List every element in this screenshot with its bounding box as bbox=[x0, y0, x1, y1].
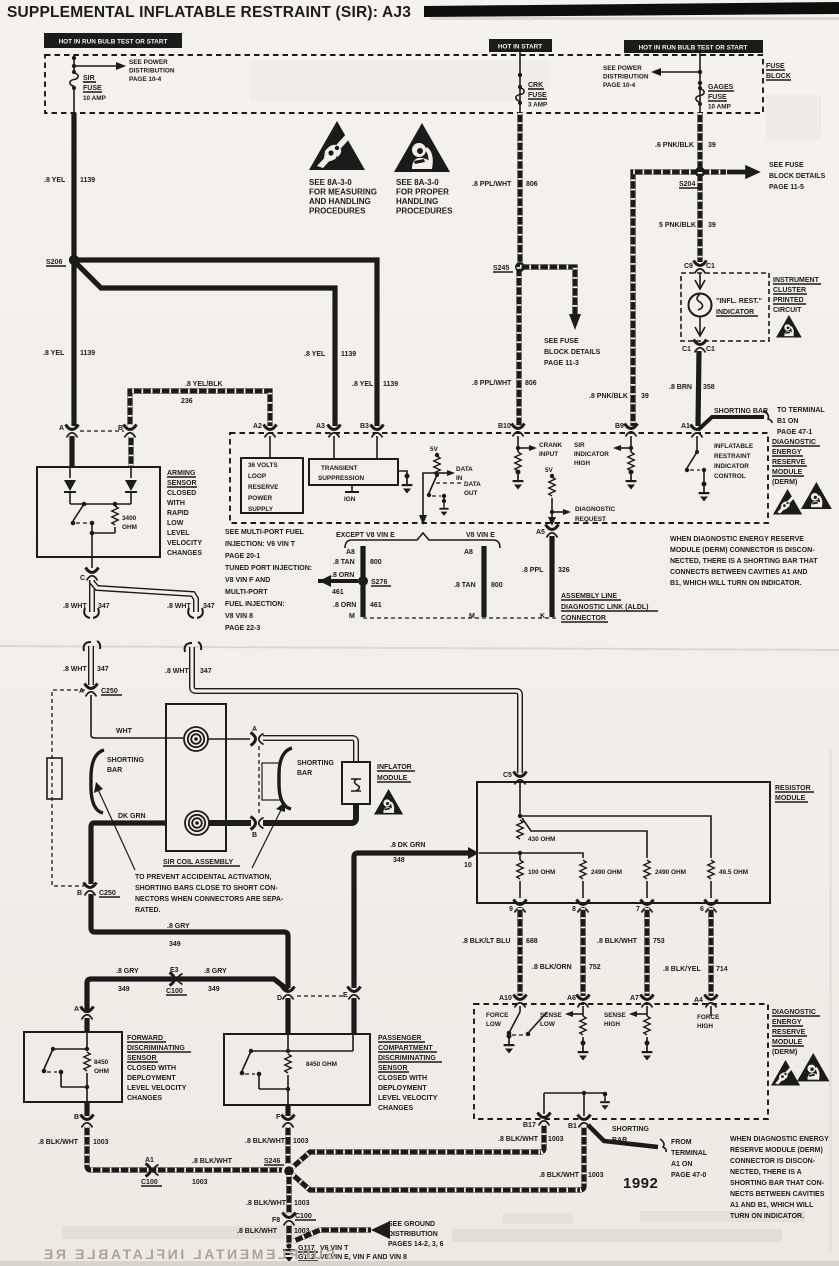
force high bbox=[697, 1006, 720, 1030]
svg-text:1003: 1003 bbox=[293, 1138, 309, 1145]
svg-text:NECTED, THERE IS A: NECTED, THERE IS A bbox=[730, 1169, 802, 1176]
connector B3 bbox=[360, 423, 384, 438]
header box HOT IN RUN BULB TEST OR START (right) bbox=[624, 40, 763, 53]
svg-text:FORCE: FORCE bbox=[486, 1012, 509, 1019]
svg-text:1003: 1003 bbox=[588, 1172, 604, 1179]
svg-text:.8 BLK/WHT: .8 BLK/WHT bbox=[192, 1158, 233, 1165]
terminal 9 bbox=[509, 900, 527, 914]
SIR fuse labels bbox=[83, 75, 107, 102]
wire S206 to A3 bbox=[74, 264, 335, 426]
svg-text:C100: C100 bbox=[166, 988, 183, 995]
label .8 BLK/WHT 1003 (B17 wire) bbox=[498, 1136, 564, 1143]
inflator module box bbox=[342, 762, 370, 804]
wire .8 BLK/LT BLU 688 hatched bbox=[517, 908, 522, 996]
CRK fuse wire bbox=[518, 52, 522, 113]
node S276 bbox=[358, 576, 391, 586]
connector C bbox=[80, 568, 99, 583]
resistor 430 OHM bbox=[517, 820, 556, 843]
svg-text:F: F bbox=[276, 1114, 281, 1121]
svg-text:WHEN DIAGNOSTIC ENERGY: WHEN DIAGNOSTIC ENERGY bbox=[730, 1136, 829, 1143]
connector B C250 bbox=[77, 883, 120, 898]
svg-text:A1: A1 bbox=[681, 423, 690, 430]
svg-text:S276: S276 bbox=[371, 579, 387, 586]
text see 8A-3-0 measuring bbox=[309, 178, 377, 216]
svg-text:347: 347 bbox=[98, 603, 110, 610]
svg-text:NECTED, THERE IS A SHORTING BA: NECTED, THERE IS A SHORTING BAR THAT bbox=[670, 558, 818, 565]
svg-text:.8 YEL: .8 YEL bbox=[44, 177, 66, 184]
svg-text:1139: 1139 bbox=[80, 350, 95, 357]
resistor module box bbox=[477, 782, 770, 903]
IGN terminal bbox=[344, 485, 359, 503]
svg-text:SIR COIL ASSEMBLY: SIR COIL ASSEMBLY bbox=[163, 859, 233, 866]
svg-text:49.5 OHM: 49.5 OHM bbox=[719, 869, 748, 876]
svg-text:TUNED PORT INJECTION:: TUNED PORT INJECTION: bbox=[225, 565, 312, 572]
svg-text:.8 WHT: .8 WHT bbox=[63, 603, 87, 610]
svg-text:DATA: DATA bbox=[464, 481, 481, 488]
wire A2 to 36V supply bbox=[269, 436, 271, 458]
svg-text:S206: S206 bbox=[46, 259, 62, 266]
svg-text:.8 BLK/WHT: .8 BLK/WHT bbox=[597, 938, 638, 945]
svg-text:B: B bbox=[252, 832, 257, 839]
header box HOT IN START bbox=[489, 39, 552, 52]
svg-text:ENERGY: ENERGY bbox=[772, 1019, 802, 1026]
svg-text:.8 YEL: .8 YEL bbox=[352, 381, 374, 388]
svg-text:LEVEL VELOCITY: LEVEL VELOCITY bbox=[127, 1085, 187, 1092]
svg-text:CONNECTOR IS DISCON-: CONNECTOR IS DISCON- bbox=[730, 1158, 816, 1165]
svg-text:.8 WHT: .8 WHT bbox=[165, 668, 189, 675]
DERM label (top right) bbox=[772, 439, 820, 486]
svg-text:SENSOR: SENSOR bbox=[167, 480, 197, 487]
svg-text:C: C bbox=[80, 575, 85, 582]
text see fuse block details page 11-3 bbox=[544, 338, 601, 367]
svg-text:DIAGNOSTIC: DIAGNOSTIC bbox=[772, 1009, 816, 1016]
svg-text:INJECTION: V6 VIN T: INJECTION: V6 VIN T bbox=[225, 541, 296, 548]
svg-text:MODULE: MODULE bbox=[775, 795, 806, 802]
svg-text:SHORTING: SHORTING bbox=[107, 757, 145, 764]
svg-text:HANDLING: HANDLING bbox=[396, 197, 438, 206]
crank input node bbox=[516, 436, 563, 458]
svg-text:B: B bbox=[77, 890, 82, 897]
svg-text:10: 10 bbox=[464, 862, 472, 869]
dashed connector position line (left) bbox=[52, 690, 85, 886]
node S245 bbox=[493, 262, 525, 272]
thick wire DK GRN to resistor module bbox=[354, 853, 471, 988]
svg-text:349: 349 bbox=[208, 986, 220, 993]
svg-text:.8 YEL: .8 YEL bbox=[43, 350, 65, 357]
svg-text:LEVEL: LEVEL bbox=[167, 530, 190, 537]
svg-text:CLOSED WITH: CLOSED WITH bbox=[127, 1065, 176, 1072]
svg-text:WHEN DIAGNOSTIC ENERGY RESERVE: WHEN DIAGNOSTIC ENERGY RESERVE bbox=[670, 536, 804, 543]
ESD triangles DERM top bbox=[773, 482, 832, 514]
svg-text:BAR: BAR bbox=[612, 1137, 627, 1144]
svg-text:ARMING: ARMING bbox=[167, 470, 196, 477]
connector C5 bbox=[503, 772, 527, 785]
5V data circuit bbox=[430, 446, 440, 477]
wire D into sensor bbox=[285, 998, 290, 1034]
label 5 PNK/BLK 39 bbox=[659, 222, 716, 229]
arrow to fuse block details 11-5 bbox=[727, 165, 761, 179]
svg-text:SEE MULTI-PORT FUEL: SEE MULTI-PORT FUEL bbox=[225, 529, 305, 536]
svg-text:K: K bbox=[540, 613, 545, 620]
svg-text:A10: A10 bbox=[499, 995, 512, 1002]
svg-text:F8: F8 bbox=[272, 1217, 280, 1224]
svg-text:HIGH: HIGH bbox=[697, 1023, 713, 1030]
switch arming sensor bbox=[71, 502, 95, 536]
svg-text:NECTS BETWEEN CAVITIES: NECTS BETWEEN CAVITIES bbox=[730, 1191, 825, 1198]
wire .8 BRN 358 bbox=[698, 351, 699, 426]
svg-text:800: 800 bbox=[370, 559, 382, 566]
label .8 WHT 347 (bottom right) bbox=[165, 668, 212, 675]
svg-text:SUPPLEMENTAL INFLATABLE RE: SUPPLEMENTAL INFLATABLE RE bbox=[41, 1246, 335, 1262]
svg-text:A: A bbox=[74, 1006, 79, 1013]
svg-text:S246: S246 bbox=[264, 1158, 280, 1165]
label .8 YEL 1139 (A wire) bbox=[43, 350, 95, 357]
text see 8A-3-0 proper handling bbox=[396, 178, 453, 216]
svg-text:M: M bbox=[469, 613, 475, 620]
ESD triangle (cluster) bbox=[776, 315, 802, 338]
hollow wire A to inflator module bbox=[263, 738, 356, 762]
svg-text:3400: 3400 bbox=[122, 515, 137, 522]
svg-text:DK GRN: DK GRN bbox=[118, 813, 146, 820]
wire joining diodes bbox=[70, 503, 131, 505]
wire coil upper to A bbox=[208, 738, 250, 740]
svg-text:PROCEDURES: PROCEDURES bbox=[396, 207, 453, 216]
svg-text:WITH: WITH bbox=[167, 500, 185, 507]
labels .8 TAN 800 (left) bbox=[333, 559, 382, 566]
fuse block label bbox=[766, 63, 791, 80]
svg-text:MODULE (DERM) CONNECTOR IS DIS: MODULE (DERM) CONNECTOR IS DISCON- bbox=[670, 547, 815, 554]
dashed line A-B connector bbox=[258, 746, 260, 814]
svg-text:100 OHM: 100 OHM bbox=[528, 869, 555, 876]
svg-text:CHANGES: CHANGES bbox=[378, 1105, 413, 1112]
svg-text:HIGH: HIGH bbox=[604, 1021, 620, 1028]
passenger sensor resistor 8450 OHM bbox=[285, 1054, 337, 1091]
svg-text:PAGES 14-2, 3, 6: PAGES 14-2, 3, 6 bbox=[388, 1241, 444, 1248]
svg-text:CLOSED: CLOSED bbox=[167, 490, 196, 497]
svg-text:OUT: OUT bbox=[464, 490, 478, 497]
svg-text:V8 VIN F AND: V8 VIN F AND bbox=[225, 577, 270, 584]
label .8 BLK/WHT 1003 (F8 down) bbox=[237, 1228, 310, 1235]
transient suppression box bbox=[309, 459, 398, 485]
wire C5 to node bbox=[518, 783, 522, 818]
wire F8 to ground bbox=[286, 1224, 291, 1244]
svg-text:FUEL INJECTION:: FUEL INJECTION: bbox=[225, 601, 285, 608]
svg-text:A3: A3 bbox=[316, 423, 325, 430]
label .8 BLK/LT BLU 688 bbox=[462, 938, 538, 945]
svg-text:.8 BLK/YEL: .8 BLK/YEL bbox=[663, 966, 701, 973]
svg-text:FUSE: FUSE bbox=[528, 92, 547, 99]
svg-text:(DERM): (DERM) bbox=[772, 479, 797, 486]
ground G117/G112 bbox=[283, 1243, 295, 1262]
svg-text:7: 7 bbox=[636, 906, 640, 913]
coil lower bbox=[185, 811, 209, 835]
svg-text:C1: C1 bbox=[706, 263, 715, 270]
fwd sensor resistor 8450 OHM bbox=[84, 1052, 109, 1089]
svg-text:PROCEDURES: PROCEDURES bbox=[309, 207, 366, 216]
wire node to 2490 branch 2 bbox=[522, 818, 647, 858]
svg-text:C1: C1 bbox=[706, 346, 715, 353]
wire .8 YEL/BLK 236 (B to A2) hatched bbox=[130, 391, 270, 426]
label .8 BLK/WHT 1003 (B1 wire) bbox=[539, 1172, 604, 1179]
wire to vin brace with arrow bbox=[419, 473, 437, 525]
small box left bbox=[47, 758, 62, 799]
svg-text:.8 PNK/BLK: .8 PNK/BLK bbox=[589, 393, 628, 400]
svg-text:PAGE 10-4: PAGE 10-4 bbox=[603, 82, 636, 89]
GAGES fuse labels bbox=[708, 84, 734, 111]
svg-text:D: D bbox=[277, 995, 282, 1002]
svg-text:INPUT: INPUT bbox=[539, 451, 558, 458]
svg-text:E: E bbox=[343, 992, 348, 999]
svg-text:A6: A6 bbox=[567, 995, 576, 1002]
connector A3 bbox=[316, 423, 341, 438]
text see ground distribution bbox=[388, 1221, 444, 1248]
svg-text:.8 BLK/WHT: .8 BLK/WHT bbox=[539, 1172, 580, 1179]
svg-text:INDICATOR: INDICATOR bbox=[574, 451, 609, 458]
DERM dashed box (bottom) bbox=[474, 1004, 768, 1119]
svg-text:INFLATOR: INFLATOR bbox=[377, 764, 412, 771]
svg-text:B1: B1 bbox=[568, 1123, 577, 1130]
svg-text:.8 YEL/BLK: .8 YEL/BLK bbox=[185, 381, 223, 388]
diode left bbox=[64, 467, 76, 504]
text instrument cluster printed circuit bbox=[773, 277, 821, 314]
svg-text:OHM: OHM bbox=[122, 524, 137, 531]
svg-text:A8: A8 bbox=[464, 549, 473, 556]
svg-text:10 AMP: 10 AMP bbox=[83, 95, 107, 102]
wire .8 BLK/YEL 714 hatched bbox=[708, 908, 713, 996]
svg-text:B: B bbox=[118, 425, 123, 432]
connector F bbox=[276, 1114, 295, 1128]
svg-text:36 VOLTS: 36 VOLTS bbox=[248, 462, 278, 469]
connector A (coil) bbox=[251, 726, 264, 746]
connector B1 bbox=[568, 1115, 591, 1131]
B9 node arrow resistor ground bbox=[613, 436, 636, 490]
svg-text:.8 BLK/LT BLU: .8 BLK/LT BLU bbox=[462, 938, 510, 945]
svg-text:.8 PPL: .8 PPL bbox=[522, 567, 544, 574]
svg-text:.8 GRY: .8 GRY bbox=[116, 968, 139, 975]
label resistor module bbox=[775, 785, 814, 802]
ESD warning triangle 2 bbox=[394, 123, 450, 172]
force low switch bbox=[486, 1006, 547, 1054]
wire S246 to B17 hatched bbox=[293, 1152, 541, 1167]
svg-text:A1 ON: A1 ON bbox=[671, 1161, 692, 1168]
scan artifact black bar top right bbox=[424, 2, 839, 17]
hollow wire hook to C5 bbox=[192, 647, 520, 773]
ALDL dashed line bbox=[363, 617, 557, 619]
svg-text:347: 347 bbox=[200, 668, 212, 675]
svg-text:COMPARTMENT: COMPARTMENT bbox=[378, 1045, 433, 1052]
svg-text:SIR: SIR bbox=[83, 75, 95, 82]
svg-text:SUPPLY: SUPPLY bbox=[248, 506, 274, 513]
wire A8 left branch bbox=[346, 546, 363, 617]
svg-text:1139: 1139 bbox=[80, 177, 95, 184]
svg-text:714: 714 bbox=[716, 966, 728, 973]
svg-text:S204: S204 bbox=[679, 181, 695, 188]
5V diagnostic request bbox=[545, 467, 555, 514]
svg-text:.8 BLK/WHT: .8 BLK/WHT bbox=[498, 1136, 539, 1143]
connector A1 C100 bbox=[141, 1157, 162, 1186]
DERM label (bottom right) bbox=[772, 1009, 820, 1056]
resistor 100 OHM bbox=[517, 855, 556, 898]
svg-text:RESERVE: RESERVE bbox=[248, 484, 279, 491]
svg-text:E3: E3 bbox=[170, 967, 179, 974]
svg-text:349: 349 bbox=[118, 986, 130, 993]
svg-text:GAGES: GAGES bbox=[708, 84, 734, 91]
shorting bar symbol right bbox=[279, 748, 292, 809]
CRK fuse element bbox=[516, 85, 524, 105]
svg-text:.8 BRN: .8 BRN bbox=[669, 384, 692, 391]
svg-text:INSTRUMENT: INSTRUMENT bbox=[773, 277, 820, 284]
label .8 BLK/WHT 1003 (S246 down) bbox=[246, 1200, 310, 1207]
label .8 BLK/WHT 1003 (F wire) bbox=[245, 1138, 309, 1145]
connector B (arming sensor) bbox=[118, 425, 137, 438]
pointer lines to shorting bars bbox=[94, 782, 285, 870]
SIR indicator high text bbox=[574, 442, 609, 467]
label .8 PNK/BLK 39 (S204 to B9) bbox=[589, 393, 649, 400]
svg-text:MULTI-PORT: MULTI-PORT bbox=[225, 589, 268, 596]
svg-text:DISTRIBUTION: DISTRIBUTION bbox=[129, 68, 175, 75]
brace except V8 VIN E bbox=[345, 533, 500, 548]
svg-text:A5: A5 bbox=[536, 529, 545, 536]
break hooks bottom half left bbox=[84, 641, 101, 651]
node S246 bbox=[264, 1158, 296, 1178]
svg-text:5V: 5V bbox=[545, 467, 554, 474]
svg-text:.8 ORN: .8 ORN bbox=[333, 602, 356, 609]
label .8 BRN 358 bbox=[669, 384, 715, 391]
wire S206 to connector A bbox=[71, 260, 76, 426]
svg-text:A7: A7 bbox=[630, 995, 639, 1002]
dashed D-E line bbox=[297, 995, 345, 997]
text see fuse block details page 11-5 bbox=[769, 162, 826, 191]
svg-text:LOOP: LOOP bbox=[248, 473, 267, 480]
svg-text:A1: A1 bbox=[145, 1157, 154, 1164]
svg-text:SENSE: SENSE bbox=[604, 1012, 626, 1019]
thick wire coil to B C250 bbox=[91, 823, 166, 884]
svg-text:C250: C250 bbox=[99, 890, 116, 897]
resistor 2490 OHM (2) bbox=[644, 860, 686, 898]
svg-text:AND HANDLING: AND HANDLING bbox=[309, 197, 371, 206]
svg-text:MODULE: MODULE bbox=[772, 469, 803, 476]
svg-text:1003: 1003 bbox=[294, 1200, 310, 1207]
svg-text:CHANGES: CHANGES bbox=[167, 550, 202, 557]
wire .8 PPL/WHT 806 hatched (S245 to B10) bbox=[516, 267, 521, 426]
svg-text:A8: A8 bbox=[346, 549, 355, 556]
svg-text:C100: C100 bbox=[141, 1179, 158, 1186]
svg-text:PAGE 10-4: PAGE 10-4 bbox=[129, 76, 162, 83]
label .8 BLK/WHT 753 bbox=[597, 938, 665, 945]
svg-text:B1, WHICH WILL TURN ON INDICAT: B1, WHICH WILL TURN ON INDICATOR. bbox=[670, 580, 801, 587]
svg-text:SHORTING: SHORTING bbox=[297, 760, 335, 767]
coil upper bbox=[184, 727, 208, 751]
svg-text:461: 461 bbox=[370, 602, 382, 609]
svg-text:.8 ORN: .8 ORN bbox=[331, 572, 354, 579]
arming sensor text bbox=[167, 470, 202, 557]
svg-text:.8 DK GRN: .8 DK GRN bbox=[390, 842, 425, 849]
svg-text:"INFL. REST.": "INFL. REST." bbox=[716, 298, 762, 305]
svg-text:347: 347 bbox=[203, 603, 215, 610]
connector A6 bbox=[567, 995, 590, 1008]
wire .6 PNK/BLK 39 hatched (GAGES to S204) bbox=[697, 113, 702, 172]
svg-text:347: 347 bbox=[97, 666, 109, 673]
svg-text:CRANK: CRANK bbox=[539, 442, 562, 449]
svg-text:SHORTING BAR: SHORTING BAR bbox=[714, 408, 768, 415]
SIR fuse element bbox=[70, 70, 78, 113]
svg-text:NECTORS WHEN CONNECTORS ARE SE: NECTORS WHEN CONNECTORS ARE SEPA- bbox=[135, 896, 284, 903]
connector B10 bbox=[498, 423, 525, 437]
svg-text:1003: 1003 bbox=[93, 1139, 109, 1146]
svg-text:A: A bbox=[79, 688, 84, 695]
instrument cluster dashed box bbox=[681, 273, 769, 341]
svg-text:.8 PPL/WHT: .8 PPL/WHT bbox=[472, 181, 512, 188]
svg-text:SEE 8A-3-0: SEE 8A-3-0 bbox=[309, 178, 352, 187]
ESD triangle inflator bbox=[374, 789, 403, 814]
label .8 BLK/WHT 1003 (A1 wire) bbox=[192, 1158, 233, 1186]
svg-text:PAGE 11-5: PAGE 11-5 bbox=[769, 184, 804, 191]
header box HOT IN RUN BULB TEST OR START (left) bbox=[44, 33, 182, 48]
svg-text:C100: C100 bbox=[295, 1213, 312, 1220]
svg-text:HIGH: HIGH bbox=[574, 460, 590, 467]
break hooks top half bbox=[84, 608, 203, 618]
svg-text:SENSOR: SENSOR bbox=[378, 1065, 408, 1072]
bottom gray band bbox=[0, 1261, 839, 1266]
wire A8 right branch bbox=[464, 546, 484, 617]
svg-text:1003: 1003 bbox=[548, 1136, 564, 1143]
svg-text:FOR PROPER: FOR PROPER bbox=[396, 188, 449, 197]
arming sensor box bbox=[37, 467, 160, 557]
text forward discriminating sensor bbox=[127, 1035, 191, 1102]
thick wire module bottom to B bbox=[263, 804, 356, 823]
svg-text:C5: C5 bbox=[503, 772, 512, 779]
resistor 2490 OHM (1) bbox=[580, 860, 622, 898]
svg-text:LOW: LOW bbox=[486, 1021, 502, 1028]
svg-text:HOT IN RUN BULB TEST OR START: HOT IN RUN BULB TEST OR START bbox=[639, 45, 748, 52]
arrow into terminal 10 bbox=[464, 847, 479, 869]
connector A (arming sensor) bbox=[59, 425, 79, 438]
resistor 49.5 OHM bbox=[708, 860, 748, 898]
connector F8 C100 bbox=[272, 1213, 316, 1226]
connector B9 bbox=[615, 423, 638, 437]
svg-text:.8 WHT: .8 WHT bbox=[167, 603, 191, 610]
svg-text:BAR: BAR bbox=[297, 770, 312, 777]
inflatable restraint indicator control switch bbox=[685, 436, 710, 502]
svg-text:FUSE: FUSE bbox=[708, 94, 727, 101]
wire A into arming sensor bbox=[69, 436, 74, 467]
connector A1 bbox=[681, 423, 704, 438]
svg-text:9: 9 bbox=[509, 906, 513, 913]
text to terminal B1 on page 47-1 bbox=[777, 407, 825, 436]
wire 10 to 100/2490 bbox=[479, 853, 583, 858]
svg-text:DISCRIMINATING: DISCRIMINATING bbox=[378, 1055, 436, 1062]
sense high bbox=[604, 1006, 652, 1061]
svg-text:.8 YEL: .8 YEL bbox=[304, 351, 326, 358]
svg-text:PAGE 20-1: PAGE 20-1 bbox=[225, 553, 260, 560]
hollow wire hook to A C250 bbox=[88, 646, 94, 685]
svg-text:SEE POWER: SEE POWER bbox=[603, 65, 642, 72]
svg-text:ENERGY: ENERGY bbox=[772, 449, 802, 456]
diode right bbox=[125, 467, 137, 504]
svg-text:CRK: CRK bbox=[528, 82, 543, 89]
label .8 YEL/BLK 236 bbox=[181, 381, 223, 405]
svg-text:8450 OHM: 8450 OHM bbox=[306, 1061, 337, 1068]
svg-text:FROM: FROM bbox=[671, 1139, 692, 1146]
36 volts loop reserve power supply box bbox=[241, 458, 303, 513]
svg-text:CIRCUIT: CIRCUIT bbox=[773, 307, 802, 314]
svg-text:PASSENGER: PASSENGER bbox=[378, 1035, 421, 1042]
svg-text:TRANSIENT: TRANSIENT bbox=[321, 465, 358, 472]
ground from transient box bbox=[398, 471, 412, 494]
wire S245 branch to fuse details arrow bbox=[520, 267, 581, 330]
svg-text:B9: B9 bbox=[615, 423, 624, 430]
label .8 BLK/ORN 752 bbox=[532, 964, 601, 971]
